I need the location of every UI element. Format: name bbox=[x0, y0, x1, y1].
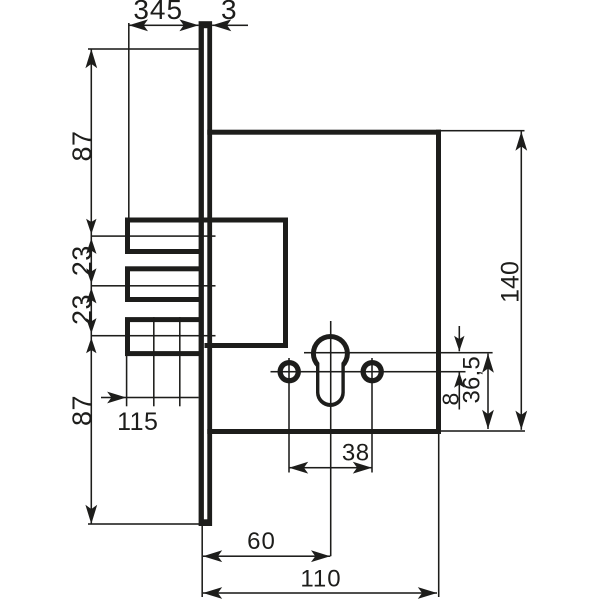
extension line right hole down bbox=[371, 358, 373, 473]
extension line left hole down bbox=[288, 358, 290, 473]
extension line top of 87 chain bbox=[88, 48, 199, 50]
dim line 3 tail (top right) bbox=[212, 25, 248, 27]
dim line 140 (body height) bbox=[521, 132, 523, 430]
bolt retracted line a bbox=[153, 317, 155, 406]
dim line 60 (backset) bbox=[203, 555, 330, 557]
svg-text:345: 345 bbox=[133, 0, 183, 25]
left dimension chain line (87/23/23/87) bbox=[91, 49, 93, 524]
center line bolt 1 bbox=[91, 235, 216, 237]
bolt housing box inside lock body bbox=[125, 218, 288, 223]
svg-text:23: 23 bbox=[67, 294, 97, 325]
svg-text:23: 23 bbox=[67, 245, 97, 276]
dim line 8 (axis offset) bbox=[459, 326, 461, 351]
extension line faceplate below bbox=[201, 526, 203, 597]
dim line 34,5 (top) bbox=[129, 25, 199, 27]
extension line body right edge down bbox=[438, 434, 440, 597]
extension line body top right bbox=[441, 130, 525, 132]
svg-text:140: 140 bbox=[497, 261, 525, 303]
svg-text:38: 38 bbox=[342, 439, 370, 466]
bolt face extension below bolt 3 bbox=[126, 356, 128, 406]
deadbolt bar 2 (middle bolt) bbox=[125, 266, 204, 302]
svg-text:36,5: 36,5 bbox=[459, 356, 486, 404]
dim line 11,5 (bolt throw) bbox=[101, 397, 199, 399]
svg-text:60: 60 bbox=[247, 528, 276, 555]
svg-text:87: 87 bbox=[67, 130, 97, 161]
lock body right edge bbox=[436, 130, 441, 434]
cylinder axis horizontal center line bbox=[304, 352, 493, 354]
extension line bottom of 87 chain bbox=[88, 523, 199, 525]
dim line 110 (body depth) bbox=[203, 592, 437, 594]
deadbolt bar 3 (bottom bolt) bbox=[125, 317, 204, 356]
faceplate (front plate, 3mm, double line) bbox=[199, 21, 213, 526]
svg-text:115: 115 bbox=[117, 408, 158, 436]
svg-text:110: 110 bbox=[300, 565, 341, 592]
cylinder vertical center line bbox=[330, 321, 332, 556]
center line bolt 2 bbox=[91, 285, 216, 287]
center line bolt 3 bbox=[91, 335, 216, 337]
dim line 36,5 (cylinder axis to bottom) bbox=[487, 354, 489, 429]
bolt retracted line b bbox=[179, 317, 181, 406]
svg-text:87: 87 bbox=[67, 395, 97, 426]
lock body bottom edge bbox=[207, 429, 441, 434]
dim line 38 (hole spacing) bbox=[289, 467, 372, 469]
euro profile cylinder hole bbox=[311, 334, 350, 373]
svg-text:3: 3 bbox=[221, 0, 237, 25]
deadbolt bar 1 (top bolt) bbox=[125, 218, 204, 255]
fixing hole right bbox=[361, 360, 384, 383]
fixing hole left bbox=[278, 360, 301, 383]
lock body top edge bbox=[207, 130, 441, 135]
extension line body bottom right bbox=[441, 430, 525, 432]
extension line left bolt face (34,5) bbox=[128, 23, 130, 218]
fixing holes axis center line bbox=[271, 371, 466, 373]
